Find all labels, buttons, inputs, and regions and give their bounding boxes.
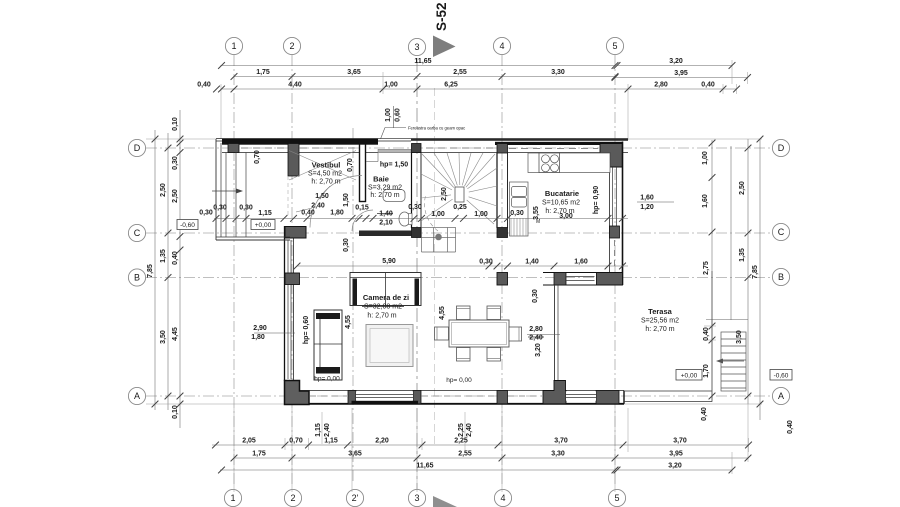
svg-text:4: 4 xyxy=(499,41,504,51)
svg-text:1,50: 1,50 xyxy=(343,193,350,207)
pier south wall w1 left xyxy=(348,391,356,404)
dining chairs xyxy=(435,306,522,361)
svg-text:A: A xyxy=(134,391,140,401)
grid axis B horizontal xyxy=(146,277,772,279)
south window 1 xyxy=(356,391,413,400)
sofa west xyxy=(314,310,342,380)
grid bubbles top xyxy=(225,37,623,55)
svg-text:B: B xyxy=(134,273,140,283)
svg-text:6,25: 6,25 xyxy=(444,82,458,89)
kitchen sink xyxy=(512,187,527,197)
svg-text:S=32,08 m2: S=32,08 m2 xyxy=(364,304,402,311)
svg-text:0,60: 0,60 xyxy=(395,108,402,122)
free pier west of kitchen opening xyxy=(497,273,508,286)
strikethrough on corrected dims xyxy=(377,213,393,215)
svg-text:2,50: 2,50 xyxy=(172,189,179,203)
svg-text:hp= 1,50: hp= 1,50 xyxy=(380,162,408,169)
kitchen top counter xyxy=(528,153,610,173)
svg-text:2': 2' xyxy=(352,493,359,503)
svg-text:Baie: Baie xyxy=(373,175,389,184)
room label vestibul xyxy=(308,161,342,186)
dim line top row2 xyxy=(234,76,615,78)
pier kitchen SE corner xyxy=(597,273,623,286)
svg-text:1: 1 xyxy=(231,41,236,51)
svg-text:1,70: 1,70 xyxy=(703,364,710,378)
dim line bottom row3 right xyxy=(617,469,732,471)
svg-text:4,55: 4,55 xyxy=(439,306,446,320)
svg-text:1,40: 1,40 xyxy=(379,211,393,218)
T pier south wall at divider xyxy=(543,381,566,404)
svg-text:-0,60: -0,60 xyxy=(180,222,195,229)
retaining tick line terasa xyxy=(706,319,748,321)
extension lines xyxy=(146,60,762,492)
grid axis A horizontal xyxy=(146,395,772,397)
east wall outer face xyxy=(622,142,624,286)
svg-text:3,20: 3,20 xyxy=(535,343,542,357)
terasa east edge xyxy=(711,271,713,402)
porch west edge xyxy=(215,139,217,240)
south wall dash segments xyxy=(310,395,542,397)
svg-text:S=10,65 m2: S=10,65 m2 xyxy=(542,200,580,207)
porch steps xyxy=(225,153,227,238)
pier stairwell west top xyxy=(412,144,422,153)
dim line bottom row3 xyxy=(220,469,615,471)
grid axis 2 vertical xyxy=(291,55,293,484)
pier south wall mid xyxy=(497,391,508,404)
east wall window glazing xyxy=(612,167,614,226)
dim col left outer xyxy=(154,130,156,410)
room label baie xyxy=(368,162,408,200)
dim line top row3 xyxy=(221,88,737,90)
svg-text:1,80: 1,80 xyxy=(330,210,344,217)
svg-text:h: 2,70 m: h: 2,70 m xyxy=(645,326,674,333)
svg-text:2,25: 2,25 xyxy=(458,423,465,437)
pier west wall at B xyxy=(285,273,300,285)
section marker bottom triangle xyxy=(433,496,457,507)
living/terasa divider glass wall xyxy=(554,285,556,381)
svg-text:2,55: 2,55 xyxy=(453,69,467,76)
svg-text:0,70: 0,70 xyxy=(347,158,354,172)
svg-text:0,10: 0,10 xyxy=(172,117,179,131)
pier stairwell east top xyxy=(497,144,508,154)
svg-text:1,15: 1,15 xyxy=(324,438,338,445)
dim col right mid2 xyxy=(730,146,732,320)
svg-text:2,20: 2,20 xyxy=(375,438,389,445)
svg-text:1,35: 1,35 xyxy=(160,249,167,263)
svg-text:1,80: 1,80 xyxy=(251,334,265,341)
svg-text:1,00: 1,00 xyxy=(431,211,445,218)
svg-text:2,50: 2,50 xyxy=(739,181,746,195)
svg-text:4: 4 xyxy=(500,493,505,503)
west wall piece above C (entry jamb) xyxy=(287,176,289,218)
grid axis 5 vertical xyxy=(614,55,616,484)
svg-text:0,30: 0,30 xyxy=(343,238,350,252)
svg-text:3,95: 3,95 xyxy=(674,70,688,77)
svg-text:11,65: 11,65 xyxy=(416,463,433,470)
svg-text:0,15: 0,15 xyxy=(355,205,369,212)
dimension texts left column (rotated) xyxy=(147,117,179,419)
svg-text:0,40: 0,40 xyxy=(701,407,708,421)
room label terasa xyxy=(641,307,679,333)
svg-text:2,90: 2,90 xyxy=(253,325,267,332)
svg-text:0,70: 0,70 xyxy=(289,438,303,445)
grid axis 3 vertical / section line S-52 xyxy=(416,58,418,490)
svg-text:4,55: 4,55 xyxy=(345,315,352,329)
svg-text:3: 3 xyxy=(414,42,419,52)
SW corner block xyxy=(285,381,310,405)
rotated interior dims xyxy=(254,150,600,357)
bath window leaf line xyxy=(366,161,378,163)
grid bubbles left xyxy=(128,139,145,404)
svg-text:3,20: 3,20 xyxy=(669,58,683,65)
svg-text:Camera de zi: Camera de zi xyxy=(363,293,409,302)
svg-text:0,30: 0,30 xyxy=(510,210,524,217)
svg-text:0,25: 0,25 xyxy=(453,204,467,211)
porch walk arrow xyxy=(212,190,240,192)
svg-text:C: C xyxy=(778,227,785,237)
svg-text:1,60: 1,60 xyxy=(640,195,654,202)
eaves line lower xyxy=(216,140,411,142)
svg-text:0,30: 0,30 xyxy=(213,205,227,212)
pier south wall w1 right xyxy=(413,391,421,404)
svg-text:2,25: 2,25 xyxy=(454,438,468,445)
callout underline lines xyxy=(254,332,295,334)
svg-text:h: 2,70 m: h: 2,70 m xyxy=(367,313,396,320)
svg-text:2,50: 2,50 xyxy=(160,183,167,197)
svg-text:7,85: 7,85 xyxy=(752,265,759,279)
svg-text:0,40: 0,40 xyxy=(301,210,315,217)
svg-text:2,80: 2,80 xyxy=(654,82,668,89)
eaves line upper xyxy=(216,138,378,140)
dim col left mid xyxy=(167,133,169,410)
svg-text:4,40: 4,40 xyxy=(288,82,302,89)
kitchen side counter xyxy=(510,182,529,236)
pier south wall east xyxy=(596,391,619,404)
svg-text:h: 2,70 m: h: 2,70 m xyxy=(311,179,340,186)
stairwell east wall xyxy=(496,153,498,228)
svg-text:3,20: 3,20 xyxy=(668,463,682,470)
dimension texts top xyxy=(197,58,715,89)
sofa top (tv unit) xyxy=(350,273,421,306)
svg-text:2,40: 2,40 xyxy=(324,423,331,437)
svg-text:1,75: 1,75 xyxy=(256,69,270,76)
interior dim line living top xyxy=(297,265,628,267)
svg-text:11,65: 11,65 xyxy=(414,58,431,65)
room label camera de zi xyxy=(363,293,409,320)
svg-text:2,55: 2,55 xyxy=(458,451,472,458)
terasa south edge xyxy=(624,390,712,392)
svg-text:hp= 0,60: hp= 0,60 xyxy=(303,316,310,344)
dim line top row1 right xyxy=(617,65,732,67)
kitchen south window glazing xyxy=(566,276,595,278)
interior dim line upper xyxy=(214,217,628,219)
svg-text:0,30: 0,30 xyxy=(408,204,422,211)
east wall inner face xyxy=(609,153,611,273)
svg-text:1,00: 1,00 xyxy=(384,82,398,89)
leader lines vestibul door dims xyxy=(319,186,330,199)
svg-text:1,20: 1,20 xyxy=(640,204,654,211)
level box +0,00 porch xyxy=(251,220,275,230)
svg-text:0,30: 0,30 xyxy=(199,210,213,217)
svg-text:1,00: 1,00 xyxy=(702,151,709,165)
level box -0,60 right xyxy=(770,370,792,381)
svg-text:5,90: 5,90 xyxy=(382,258,396,265)
north wall inner face xyxy=(222,152,628,154)
dimension ticks xyxy=(152,62,764,473)
svg-text:hp= 0,90: hp= 0,90 xyxy=(593,186,600,214)
svg-text:1,35: 1,35 xyxy=(739,248,746,262)
svg-text:2,40: 2,40 xyxy=(529,335,543,342)
svg-text:2,75: 2,75 xyxy=(703,261,710,275)
svg-text:+0,00: +0,00 xyxy=(681,373,698,380)
stairwell west wall xyxy=(411,153,413,229)
stair lower flight xyxy=(422,228,456,253)
svg-text:3,30: 3,30 xyxy=(551,451,565,458)
svg-text:C: C xyxy=(134,228,141,238)
grid axis D horizontal xyxy=(146,147,772,149)
svg-text:S=4,50 m2: S=4,50 m2 xyxy=(308,171,342,178)
svg-text:Vestibul: Vestibul xyxy=(312,161,341,170)
dimension texts bottom xyxy=(242,438,687,470)
dim line top row2 right xyxy=(615,77,748,79)
svg-text:3,65: 3,65 xyxy=(347,69,361,76)
exterior stair east xyxy=(719,332,746,391)
vestibul door arc xyxy=(310,176,362,228)
svg-text:D: D xyxy=(778,143,785,153)
svg-text:+0,00: +0,00 xyxy=(255,222,272,229)
svg-text:0,10: 0,10 xyxy=(172,405,179,419)
svg-text:0,40: 0,40 xyxy=(787,420,794,434)
stairwell west wall bottom pier xyxy=(412,228,422,238)
dining table xyxy=(449,320,509,347)
svg-text:3,50: 3,50 xyxy=(160,330,167,344)
blind window strip above bath xyxy=(378,149,411,152)
svg-text:3: 3 xyxy=(414,493,419,503)
svg-text:1,00: 1,00 xyxy=(474,211,488,218)
dimension texts right columns (rotated) xyxy=(701,151,794,434)
svg-text:0,30: 0,30 xyxy=(172,156,179,170)
room label bucatarie xyxy=(542,189,580,215)
grid bubbles bottom xyxy=(224,489,625,506)
dim col right outer xyxy=(759,139,761,420)
svg-text:0,40: 0,40 xyxy=(701,82,715,89)
svg-text:1,15: 1,15 xyxy=(315,423,322,437)
svg-text:0,70: 0,70 xyxy=(254,150,261,164)
stairwell east wall bottom pier xyxy=(497,228,508,238)
dim col right mid xyxy=(747,139,749,404)
svg-text:B: B xyxy=(778,272,784,282)
section marker top triangle xyxy=(433,36,456,58)
level box +0,00 terasa xyxy=(676,370,702,381)
pier west wall at C xyxy=(285,227,306,239)
svg-text:2,40: 2,40 xyxy=(466,423,473,437)
svg-text:2,80: 2,80 xyxy=(529,326,543,333)
svg-text:hp= 0,00: hp= 0,00 xyxy=(314,376,340,383)
svg-text:3,95: 3,95 xyxy=(669,451,683,458)
dim col right inner xyxy=(711,140,713,402)
svg-text:0,40: 0,40 xyxy=(197,82,211,89)
dim line bottom row2 xyxy=(234,457,748,459)
west wall inner face xyxy=(293,238,295,380)
grid axis 4 vertical xyxy=(501,55,503,484)
coffee table xyxy=(366,325,413,367)
stair newel xyxy=(455,187,464,202)
grid axis C horizontal xyxy=(146,232,772,234)
porch south edge xyxy=(216,236,290,238)
south wall inner face xyxy=(284,390,624,392)
svg-text:3,55: 3,55 xyxy=(533,206,540,220)
svg-text:1,75: 1,75 xyxy=(252,451,266,458)
svg-text:h: 2,70 m: h: 2,70 m xyxy=(545,208,574,215)
svg-text:3,30: 3,30 xyxy=(551,69,565,76)
svg-text:2,10: 2,10 xyxy=(379,220,393,227)
svg-text:Fereastra oarba cu geam opac: Fereastra oarba cu geam opac xyxy=(408,126,465,131)
svg-text:0,40: 0,40 xyxy=(703,327,710,341)
pier on north wall at porch xyxy=(228,144,239,153)
svg-text:2: 2 xyxy=(289,41,294,51)
bath toilet xyxy=(399,212,410,226)
svg-text:S=25,56 m2: S=25,56 m2 xyxy=(641,318,679,325)
svg-text:0,30: 0,30 xyxy=(239,205,253,212)
svg-text:1,00: 1,00 xyxy=(385,108,392,122)
svg-text:Bucatarie: Bucatarie xyxy=(545,189,579,198)
dim line bottom row1 xyxy=(212,444,749,446)
pier kitchen NE corner xyxy=(600,144,623,168)
svg-text:1,15: 1,15 xyxy=(258,210,272,217)
svg-text:4,45: 4,45 xyxy=(172,327,179,341)
svg-text:0,30: 0,30 xyxy=(532,289,539,303)
svg-text:5: 5 xyxy=(614,493,619,503)
svg-text:3,65: 3,65 xyxy=(348,451,362,458)
bath south wall xyxy=(359,231,412,237)
svg-text:D: D xyxy=(134,143,141,153)
svg-text:1: 1 xyxy=(230,493,235,503)
svg-text:1,60: 1,60 xyxy=(574,259,588,266)
spiral stair treads xyxy=(421,153,497,231)
west wall outer face xyxy=(284,226,286,381)
svg-text:5: 5 xyxy=(612,41,617,51)
bath door arc xyxy=(352,210,373,231)
bath washbasin xyxy=(383,190,405,202)
pier east wall at C xyxy=(610,226,620,238)
south window 2 xyxy=(566,391,596,400)
west wall window glazing xyxy=(287,240,289,379)
south wall outer face xyxy=(284,403,624,405)
stair column dot xyxy=(435,234,442,241)
svg-text:2,40: 2,40 xyxy=(311,203,325,210)
svg-text:0,30: 0,30 xyxy=(479,259,493,266)
dim line top row1 xyxy=(221,65,616,67)
svg-text:2: 2 xyxy=(290,493,295,503)
svg-text:2,05: 2,05 xyxy=(242,438,256,445)
svg-text:1,40: 1,40 xyxy=(525,259,539,266)
dishwasher hatch xyxy=(511,218,526,236)
svg-text:3,70: 3,70 xyxy=(673,438,687,445)
svg-text:1,50: 1,50 xyxy=(315,193,329,200)
north wall black band kitchen part xyxy=(495,142,623,145)
svg-text:h: 2,70 m: h: 2,70 m xyxy=(370,192,399,199)
wall vestibul/bath xyxy=(360,144,366,202)
svg-text:A: A xyxy=(778,391,784,401)
aux extension line at stair width xyxy=(434,88,436,444)
vestibul X cross xyxy=(289,151,356,181)
grid axis 2' vertical xyxy=(352,128,354,484)
dim col left inner xyxy=(179,110,181,428)
kitchen south wall outlines xyxy=(543,272,623,274)
svg-text:-0,60: -0,60 xyxy=(774,373,789,380)
svg-text:hp= 0,00: hp= 0,00 xyxy=(446,377,472,384)
svg-text:1,60: 1,60 xyxy=(702,194,709,208)
svg-text:2,50: 2,50 xyxy=(441,187,448,201)
level box -0,60 left xyxy=(177,220,198,230)
svg-text:Terasa: Terasa xyxy=(648,307,672,316)
svg-text:S=3,29 m2: S=3,29 m2 xyxy=(368,185,402,192)
north wall window dashes xyxy=(241,147,598,150)
pier vestibul west (L down) xyxy=(288,144,299,177)
pier kitchen south west end xyxy=(554,273,566,286)
grid bubbles right xyxy=(772,139,789,404)
svg-text:0,40: 0,40 xyxy=(172,251,179,265)
svg-text:3,70: 3,70 xyxy=(554,438,568,445)
svg-text:7,85: 7,85 xyxy=(147,264,154,278)
north wall black band west part xyxy=(222,139,378,145)
stove xyxy=(539,153,560,173)
grid axis 1 vertical xyxy=(233,55,235,484)
east wall lower dash xyxy=(614,240,616,270)
svg-text:S-52: S-52 xyxy=(434,2,449,31)
